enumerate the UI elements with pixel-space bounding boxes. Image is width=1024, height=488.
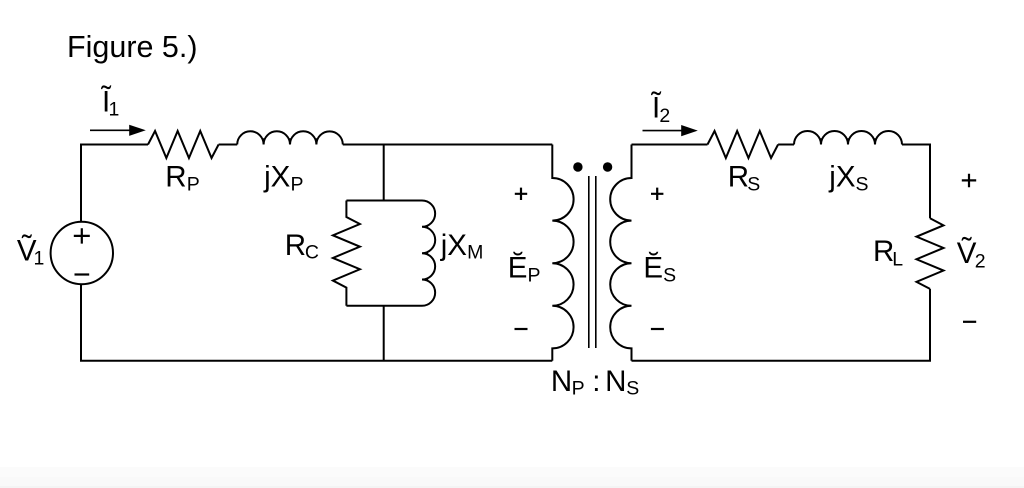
svg-text:1: 1 bbox=[34, 247, 45, 269]
svg-text:jX: jX bbox=[828, 160, 856, 193]
wire XS to RL bbox=[902, 145, 930, 219]
svg-text:2: 2 bbox=[975, 250, 986, 272]
bottom page strip bbox=[0, 467, 1024, 488]
resistor RC bbox=[333, 201, 360, 306]
wire source bottom rail bbox=[81, 284, 552, 361]
dot primary polarity bbox=[573, 162, 582, 171]
svg-text:R: R bbox=[285, 229, 306, 262]
V1 plus sign bbox=[74, 228, 90, 243]
wire RP to XP bbox=[219, 144, 238, 146]
wire XP to transformer primary bbox=[343, 144, 553, 146]
svg-text:P: P bbox=[291, 173, 304, 195]
svg-text:S: S bbox=[663, 264, 676, 286]
svg-text:2: 2 bbox=[659, 105, 670, 127]
svg-text:P: P bbox=[528, 264, 541, 286]
svg-text:R: R bbox=[165, 160, 186, 193]
svg-text::: : bbox=[592, 365, 600, 398]
V2 plus sign bbox=[962, 174, 976, 187]
svg-text:S: S bbox=[626, 377, 639, 399]
V2 minus sign bbox=[963, 321, 976, 323]
resistor RP bbox=[148, 131, 219, 158]
svg-text:N: N bbox=[551, 365, 572, 398]
wire shunt bottom rail bbox=[346, 305, 422, 307]
svg-text:C: C bbox=[305, 241, 319, 263]
wire shunt node top bbox=[383, 145, 385, 201]
arrow I2 bbox=[643, 130, 683, 132]
wire RS to XS bbox=[778, 144, 794, 146]
svg-text:R: R bbox=[728, 160, 749, 193]
inductor jXM bbox=[422, 201, 435, 306]
inductor jXP bbox=[237, 131, 343, 144]
dot secondary polarity bbox=[603, 162, 612, 171]
svg-text:L: L bbox=[892, 249, 903, 271]
EP plus sign bbox=[515, 188, 527, 200]
wire shunt top rail bbox=[346, 200, 422, 202]
svg-text:1: 1 bbox=[109, 98, 120, 120]
svg-text:S: S bbox=[747, 173, 760, 195]
svg-text:jX: jX bbox=[440, 229, 468, 262]
resistor RS bbox=[708, 131, 779, 158]
svg-text:Ĕ: Ĕ bbox=[508, 252, 528, 285]
svg-text:R: R bbox=[873, 235, 894, 268]
transformer secondary winding ES bbox=[610, 145, 631, 361]
arrow I1 bbox=[90, 129, 130, 131]
EP minus sign bbox=[515, 328, 528, 330]
svg-text:Ṽ: Ṽ bbox=[957, 236, 977, 270]
svg-text:M: M bbox=[467, 241, 483, 263]
wire source top to RP bbox=[81, 145, 148, 222]
svg-text:Figure 5.): Figure 5.) bbox=[67, 30, 198, 64]
voltage source V1 bbox=[51, 222, 113, 284]
svg-text:S: S bbox=[856, 173, 869, 195]
svg-text:P: P bbox=[572, 377, 585, 399]
transformer primary winding EP bbox=[552, 145, 573, 361]
ES minus sign bbox=[651, 328, 664, 330]
svg-text:jX: jX bbox=[263, 160, 291, 193]
wire shunt node bottom bbox=[383, 306, 385, 361]
wire secondary top to RS bbox=[632, 144, 708, 146]
inductor jXS bbox=[794, 131, 902, 145]
wire RL to bottom rail bbox=[632, 289, 931, 361]
svg-text:Ĕ: Ĕ bbox=[643, 252, 663, 285]
ES plus sign bbox=[651, 188, 663, 200]
svg-text:N: N bbox=[605, 365, 626, 398]
transformer core line right bbox=[595, 176, 597, 348]
transformer core line left bbox=[588, 176, 590, 348]
resistor RL bbox=[917, 218, 944, 289]
V1 minus sign bbox=[75, 273, 90, 275]
svg-text:P: P bbox=[187, 173, 200, 195]
